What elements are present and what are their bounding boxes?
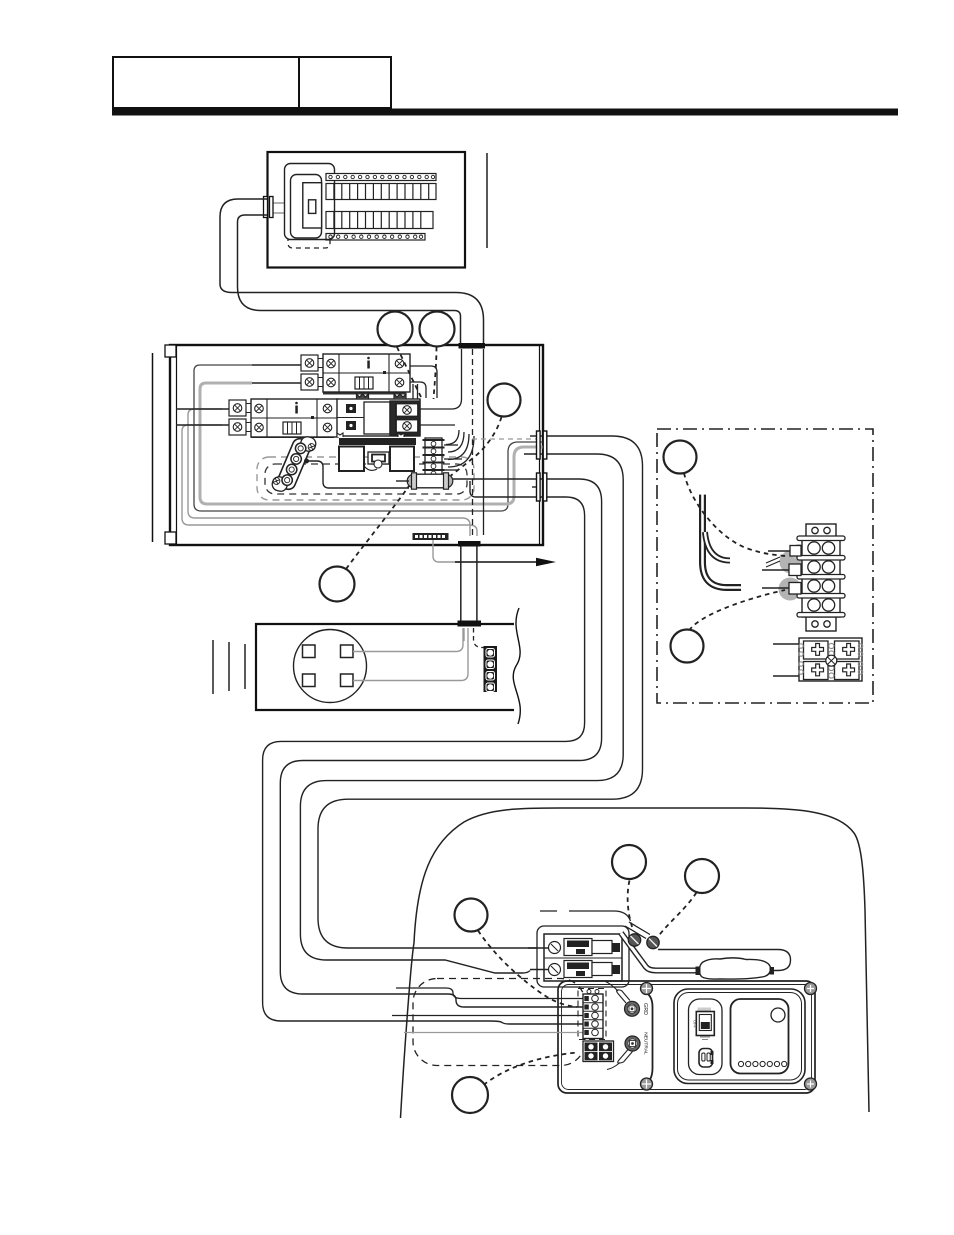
svg-text:NEUTRAL: NEUTRAL: [643, 1032, 649, 1055]
svg-text:OFF: OFF: [693, 1020, 698, 1029]
svg-text:GRD: GRD: [642, 1003, 648, 1015]
